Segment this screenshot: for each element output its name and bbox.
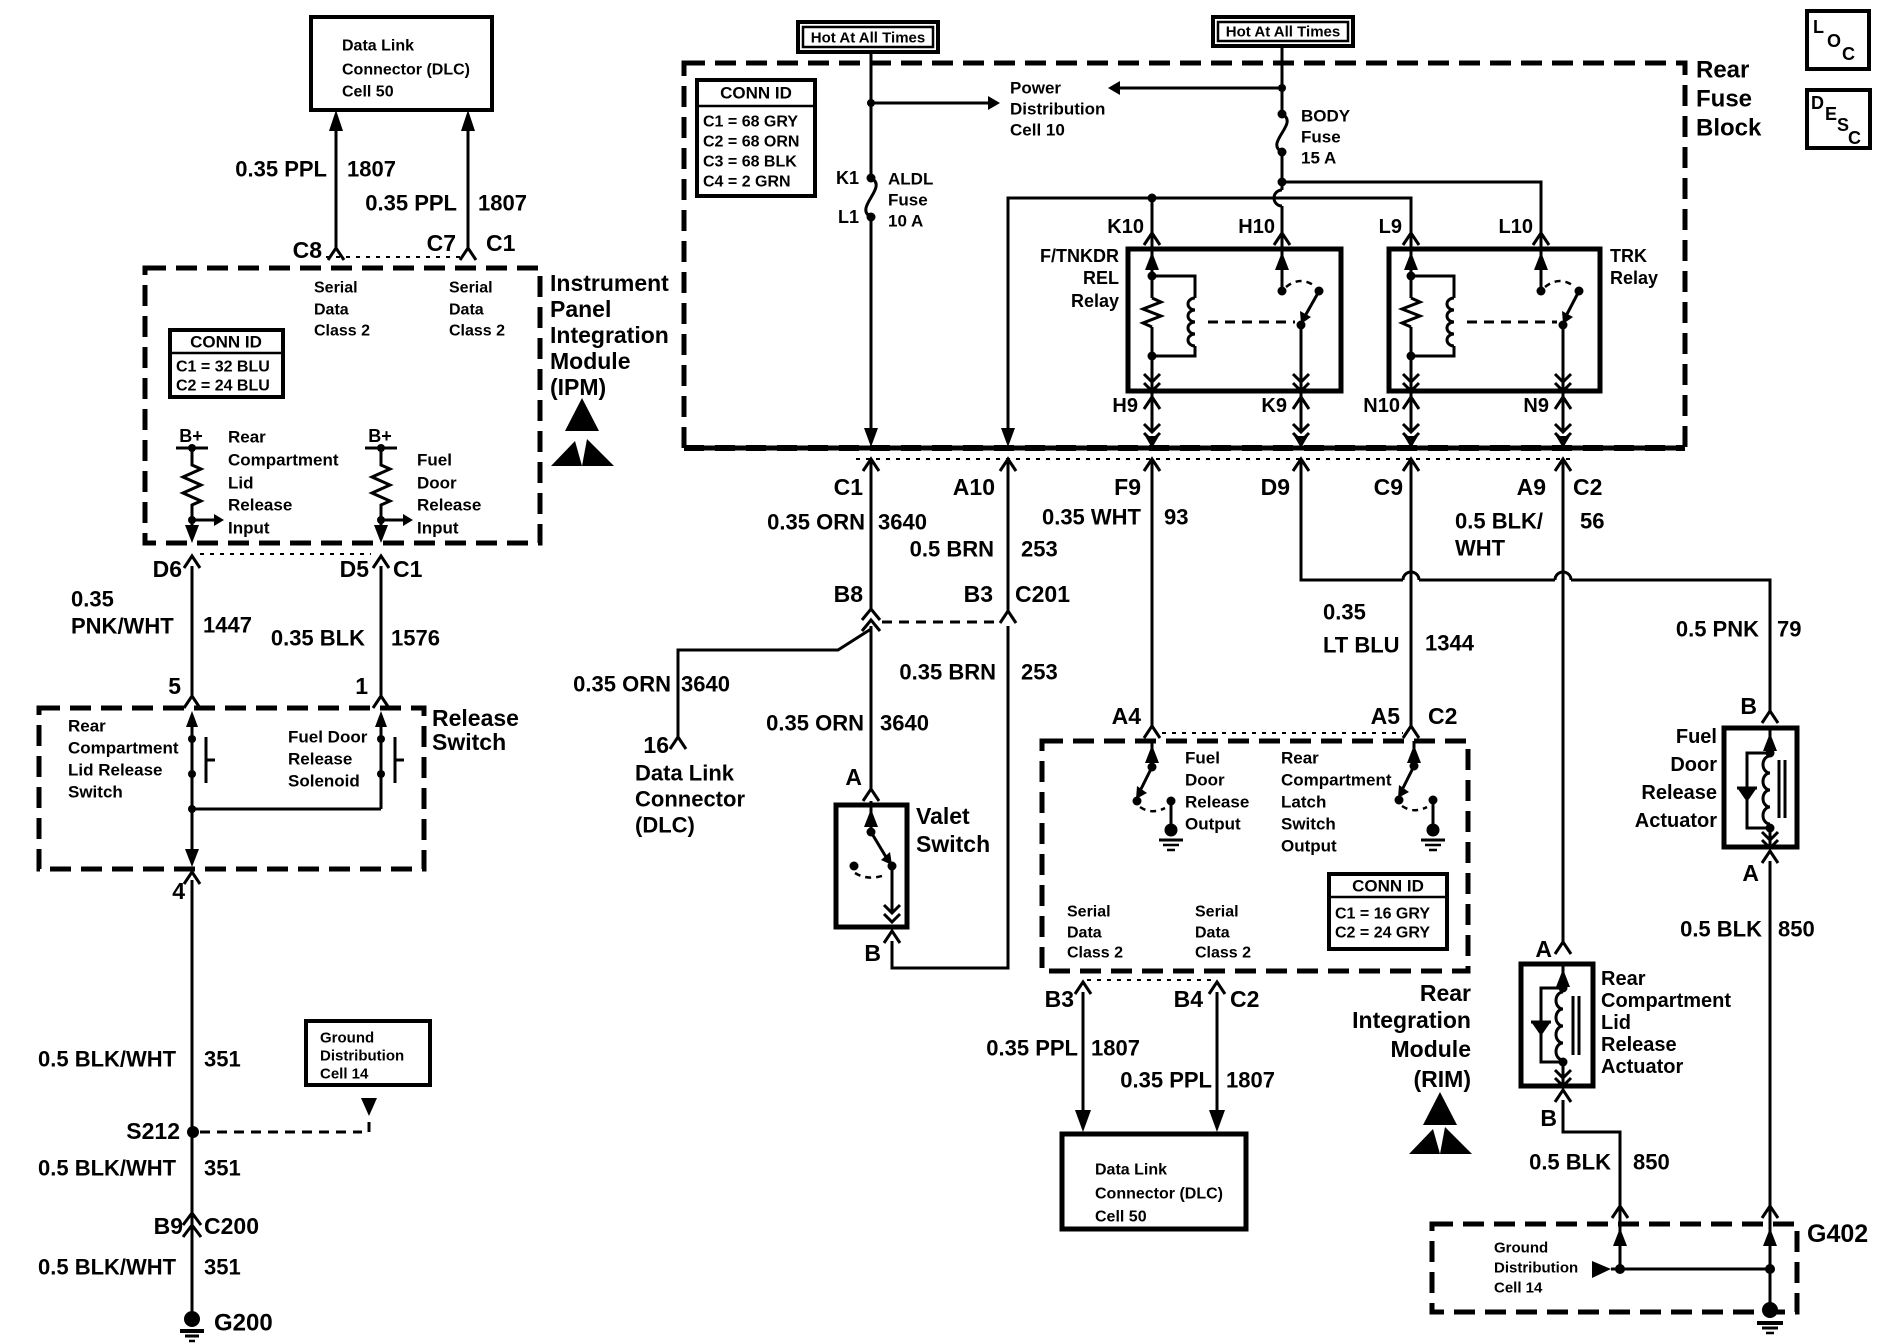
svg-text:Fuse: Fuse — [1696, 86, 1752, 113]
svg-text:B: B — [1740, 693, 1757, 719]
svg-text:0.35 ORN: 0.35 ORN — [766, 711, 864, 736]
svg-text:0.35 PPL: 0.35 PPL — [235, 157, 327, 182]
svg-text:Rear: Rear — [1601, 968, 1646, 990]
switch Fuel Door Release Solenoid contact — [375, 711, 404, 783]
svg-text:C200: C200 — [204, 1213, 259, 1239]
pin C7 / C1 connector — [427, 230, 516, 260]
svg-text:Data: Data — [1195, 925, 1230, 942]
label Rear Fuse Block — [1696, 57, 1762, 142]
svg-text:Hot At All Times: Hot At All Times — [1226, 24, 1340, 41]
svg-text:Release: Release — [1601, 1034, 1677, 1056]
svg-text:S212: S212 — [126, 1118, 180, 1144]
Rear Fuse Block dashed box — [684, 63, 1685, 448]
svg-text:PNK/WHT: PNK/WHT — [71, 614, 174, 639]
resistor Fuel Door Release Input pull-up — [372, 448, 390, 514]
pin L10 — [1499, 216, 1549, 245]
svg-text:Actuator: Actuator — [1601, 1056, 1683, 1078]
label Fuel Door Release Solenoid — [288, 728, 368, 791]
svg-text:0.35 ORN: 0.35 ORN — [767, 510, 865, 535]
value label 0.5 BLK/WHT 351 (2) — [38, 1156, 241, 1181]
svg-text:C3 = 68 BLK: C3 = 68 BLK — [703, 154, 797, 171]
svg-text:Connector (DLC): Connector (DLC) — [1095, 1186, 1223, 1203]
svg-text:16: 16 — [643, 732, 669, 758]
svg-text:Compartment: Compartment — [68, 739, 179, 758]
switch Fuel Door Release Output — [1133, 741, 1184, 850]
wire C8 serial data to DLC with arrow — [329, 110, 343, 248]
svg-text:L9: L9 — [1379, 216, 1402, 238]
pin C9 — [1374, 459, 1419, 500]
svg-text:K9: K9 — [1261, 395, 1287, 417]
svg-text:C8: C8 — [293, 237, 323, 263]
wire to Power Distribution (right arrow) — [871, 96, 1000, 110]
svg-text:C1: C1 — [393, 556, 423, 582]
svg-text:Class 2: Class 2 — [1195, 945, 1251, 962]
svg-text:850: 850 — [1778, 917, 1815, 942]
pin A (valet) — [845, 764, 879, 801]
pin B (fuel door actuator) — [1740, 693, 1778, 723]
svg-text:B8: B8 — [834, 581, 864, 607]
svg-text:G200: G200 — [214, 1310, 273, 1337]
svg-text:A: A — [1742, 860, 1759, 886]
svg-text:Fuel: Fuel — [417, 451, 452, 470]
svg-text:Fuse: Fuse — [1301, 128, 1341, 147]
svg-text:LT BLU: LT BLU — [1323, 633, 1400, 658]
svg-text:1576: 1576 — [391, 626, 440, 651]
pin A9 / C2 — [1517, 459, 1603, 500]
wire B8 branch to DLC pin 16 — [678, 629, 871, 739]
pin K9 — [1261, 391, 1309, 448]
svg-text:Data: Data — [314, 302, 349, 319]
svg-text:Cell 50: Cell 50 — [342, 84, 394, 101]
resistor Rear Compartment Lid Release Input pull-up — [183, 448, 201, 514]
svg-text:1447: 1447 — [203, 613, 252, 638]
svg-text:Class 2: Class 2 — [449, 323, 505, 340]
svg-text:1807: 1807 — [1226, 1068, 1275, 1093]
svg-text:1: 1 — [355, 673, 368, 699]
svg-text:Data: Data — [1067, 925, 1102, 942]
svg-text:B4: B4 — [1174, 986, 1204, 1012]
svg-text:REL: REL — [1083, 268, 1119, 288]
svg-text:Lid: Lid — [228, 474, 254, 493]
svg-text:Module: Module — [1391, 1036, 1472, 1062]
connector row dotted line under fuse block — [856, 458, 1574, 460]
actuator fuel door coil and diode — [1737, 728, 1785, 848]
CONN ID table (IPM) — [170, 330, 283, 397]
wire 0.35 LT BLU 1344 C9 to A5 — [1410, 462, 1413, 726]
svg-text:4: 4 — [172, 878, 185, 904]
svg-text:Instrument: Instrument — [550, 270, 669, 296]
svg-text:Release: Release — [432, 705, 519, 731]
svg-text:0.5 BLK: 0.5 BLK — [1680, 917, 1762, 942]
pin N10 — [1363, 391, 1419, 448]
svg-text:Connector: Connector — [635, 787, 745, 812]
wire 0.35 BRN 253 B3 to valet B — [892, 626, 1008, 968]
svg-text:C1 = 68 GRY: C1 = 68 GRY — [703, 114, 798, 131]
pin C8 — [293, 237, 344, 263]
svg-text:F9: F9 — [1114, 474, 1141, 500]
svg-text:0.35 BRN: 0.35 BRN — [899, 660, 996, 685]
svg-text:A5: A5 — [1371, 703, 1401, 729]
svg-text:Serial: Serial — [1067, 904, 1111, 921]
pin A4 — [1112, 703, 1160, 738]
relay TRK coil-switch dashed link — [1467, 321, 1557, 324]
svg-text:L: L — [1813, 17, 1824, 37]
pin 16 — [643, 732, 686, 758]
svg-text:0.35 PPL: 0.35 PPL — [986, 1036, 1078, 1061]
svg-text:0.35 PPL: 0.35 PPL — [1120, 1068, 1212, 1093]
switch valet internals — [850, 801, 901, 922]
svg-text:Lid Release: Lid Release — [68, 761, 163, 780]
svg-text:Compartment: Compartment — [1281, 771, 1392, 790]
svg-text:Door: Door — [1670, 754, 1717, 776]
Ground Distribution Cell 14 box (left) — [306, 1021, 430, 1085]
wire 0.5 PNK 79 D9 to fuel door actuator B (with hops) — [1301, 462, 1770, 713]
value label 0.5 BLK/WHT 351 (3) — [38, 1255, 241, 1280]
node B+ (left) — [176, 426, 208, 452]
svg-text:Distribution: Distribution — [1010, 100, 1105, 119]
label Release Switch — [432, 705, 519, 755]
node B+ (right) — [365, 426, 397, 452]
LOC reference box — [1807, 11, 1869, 69]
pin B3 (RIM) — [1045, 982, 1091, 1012]
label Serial Data Class 2 (RIM left) — [1067, 904, 1123, 962]
relay coil-switch dashed link — [1208, 321, 1295, 324]
svg-text:K1: K1 — [836, 168, 859, 188]
svg-text:Class 2: Class 2 — [1067, 945, 1123, 962]
wire 0.5 BLK/WHT 56 A9 down to rear actuator A — [1562, 462, 1565, 944]
svg-text:79: 79 — [1777, 617, 1801, 642]
label Rear Compartment Lid Release Switch — [68, 717, 179, 802]
pin B4 / C2 (RIM) — [1174, 982, 1260, 1012]
relay F/TNKDR switch — [1275, 236, 1324, 391]
value label 0.5 BRN 253 — [910, 537, 1058, 562]
ground G200 — [180, 1310, 273, 1342]
label Fuel Door Release Input — [417, 451, 481, 538]
svg-text:C2: C2 — [1573, 474, 1602, 500]
svg-text:C2 = 68 ORN: C2 = 68 ORN — [703, 134, 799, 151]
label Fuel Door Release Actuator — [1635, 726, 1717, 832]
svg-text:0.35 WHT: 0.35 WHT — [1042, 505, 1142, 530]
value label 0.5 BLK 850 (fuel) — [1680, 917, 1815, 942]
svg-text:B3: B3 — [964, 581, 993, 607]
svg-text:1344: 1344 — [1425, 631, 1475, 656]
svg-text:Data Link: Data Link — [1095, 1162, 1167, 1179]
label Rear Compartment Lid Release Actuator — [1601, 968, 1731, 1078]
switch Rear Compartment Lid Release Switch — [186, 711, 215, 783]
svg-text:Output: Output — [1185, 815, 1241, 834]
svg-text:K10: K10 — [1107, 216, 1144, 238]
pin 1 — [355, 673, 389, 708]
svg-text:Fuel: Fuel — [1185, 749, 1220, 768]
svg-text:Switch: Switch — [916, 831, 990, 857]
value label 0.35 LT BLU 1344 — [1323, 600, 1475, 658]
dashed link C201 — [882, 621, 998, 624]
svg-text:Input: Input — [228, 519, 270, 538]
label Power Distribution Cell 10 — [1010, 79, 1105, 140]
svg-text:5: 5 — [168, 673, 181, 699]
pin C1 (fuse block) — [834, 459, 879, 500]
svg-text:E: E — [1825, 104, 1837, 124]
ground G402 dashed box — [1432, 1224, 1797, 1312]
svg-text:0.35 ORN: 0.35 ORN — [573, 672, 671, 697]
label Valet Switch — [916, 803, 990, 857]
wire from BODY feed to Power Distribution (left arrow) — [1108, 81, 1282, 95]
connector B3 C201 — [964, 581, 1071, 623]
svg-text:0.35: 0.35 — [71, 587, 114, 612]
label TRK Relay — [1610, 246, 1658, 288]
svg-text:0.5 BLK/WHT: 0.5 BLK/WHT — [38, 1156, 177, 1181]
svg-text:Fuse: Fuse — [888, 191, 928, 210]
svg-text:15 A: 15 A — [1301, 149, 1336, 168]
svg-text:C2 = 24 BLU: C2 = 24 BLU — [176, 378, 270, 395]
svg-text:0.5 BLK/WHT: 0.5 BLK/WHT — [38, 1255, 177, 1280]
svg-text:Valet: Valet — [916, 803, 970, 829]
label Data Link Connector (DLC) — [635, 761, 745, 838]
svg-text:Lid: Lid — [1601, 1012, 1631, 1034]
svg-text:Release: Release — [228, 496, 292, 515]
label F/TNKDR REL Relay — [1040, 246, 1119, 311]
svg-text:Power: Power — [1010, 79, 1061, 98]
svg-text:Fuel: Fuel — [1676, 726, 1717, 748]
pin B (valet) — [864, 931, 900, 966]
relay F/TNKDR REL Relay box — [1128, 249, 1341, 391]
pin B (rear compartment actuator) — [1540, 1090, 1571, 1131]
svg-text:Rear: Rear — [1281, 749, 1319, 768]
wire coil feed line A10 to K10 and L9 — [1001, 194, 1411, 448]
svg-text:Rear: Rear — [68, 717, 106, 736]
label Serial Data Class 2 (RIM right) — [1195, 904, 1251, 962]
value label 0.35 PPL 1807 (left) — [235, 157, 396, 182]
svg-text:0.5 BLK: 0.5 BLK — [1529, 1150, 1611, 1175]
wire 0.35 BLK 1576 — [380, 566, 383, 698]
wire hot feed 2 — [1278, 46, 1286, 114]
DESC reference box — [1807, 90, 1870, 148]
label Serial Data Class 2 (left) — [314, 280, 370, 340]
label Serial Data Class 2 (right) — [449, 280, 505, 340]
value label 0.35 ORN 3640 (upper) — [767, 510, 927, 535]
arrow to ground distribution — [361, 1098, 377, 1132]
svg-text:3640: 3640 — [681, 672, 730, 697]
svg-text:Integration: Integration — [550, 322, 669, 348]
relay TRK switch — [1534, 236, 1584, 391]
svg-text:Compartment: Compartment — [228, 451, 339, 470]
relay TRK Relay box — [1389, 249, 1600, 391]
Hot At All Times box (left) — [798, 22, 938, 52]
label Instrument Panel Integration Module (IPM) — [550, 270, 669, 400]
svg-text:D: D — [1811, 93, 1824, 113]
label Rear Compartment Lid Release Input — [228, 428, 339, 538]
actuator Rear Compartment Lid Release Actuator box — [1521, 964, 1593, 1086]
svg-text:Door: Door — [417, 474, 457, 493]
svg-text:253: 253 — [1021, 660, 1058, 685]
wire 0.5 BLK 850 fuel actuator to G402 — [1769, 861, 1772, 1305]
svg-text:B: B — [1540, 1105, 1557, 1131]
svg-text:Serial: Serial — [449, 280, 493, 297]
arrow ground distribution feed — [1592, 1261, 1611, 1278]
svg-text:56: 56 — [1580, 509, 1604, 534]
svg-text:N10: N10 — [1363, 395, 1400, 417]
svg-text:B+: B+ — [368, 426, 392, 446]
value label 0.35 PPL 1807 (B3) — [986, 1036, 1140, 1061]
svg-text:Input: Input — [417, 519, 459, 538]
Data Link Connector (DLC) Cell 50 box (top) — [311, 17, 492, 110]
svg-text:1807: 1807 — [1091, 1036, 1140, 1061]
svg-text:0.5 BRN: 0.5 BRN — [910, 537, 994, 562]
svg-text:CONN ID: CONN ID — [720, 84, 792, 103]
connector B8 — [834, 581, 880, 631]
svg-text:N9: N9 — [1523, 395, 1549, 417]
svg-text:Output: Output — [1281, 837, 1337, 856]
svg-text:Integration: Integration — [1352, 1007, 1471, 1033]
svg-text:C2: C2 — [1230, 986, 1259, 1012]
svg-text:Data Link: Data Link — [342, 38, 414, 55]
svg-text:O: O — [1827, 31, 1841, 51]
svg-text:Cell 10: Cell 10 — [1010, 121, 1065, 140]
svg-text:Switch: Switch — [1281, 815, 1336, 834]
actuator Fuel Door Release Actuator box — [1724, 728, 1797, 847]
svg-text:Relay: Relay — [1071, 291, 1119, 311]
value label 0.35 WHT 93 — [1042, 505, 1189, 530]
svg-text:A10: A10 — [953, 474, 995, 500]
svg-text:WHT: WHT — [1455, 536, 1506, 561]
svg-text:3640: 3640 — [880, 711, 929, 736]
svg-text:D9: D9 — [1261, 474, 1290, 500]
svg-text:A: A — [1535, 936, 1552, 962]
svg-text:0.5 PNK: 0.5 PNK — [1676, 617, 1759, 642]
label Rear Compartment Latch Switch Output — [1281, 749, 1392, 856]
relay F/TNKDR coil branch — [1143, 236, 1195, 391]
connector row dotted line at RIM top — [1162, 732, 1403, 734]
wire 0.35 WHT 93 F9 to A4 — [1151, 462, 1154, 726]
svg-text:351: 351 — [204, 1156, 241, 1181]
value label 0.35 ORN 3640 (to DLC) — [573, 672, 730, 697]
svg-text:Release: Release — [417, 496, 481, 515]
svg-text:253: 253 — [1021, 537, 1058, 562]
svg-text:Door: Door — [1185, 771, 1225, 790]
svg-text:Cell 50: Cell 50 — [1095, 1209, 1147, 1226]
svg-text:10 A: 10 A — [888, 212, 923, 231]
svg-text:ALDL: ALDL — [888, 170, 933, 189]
svg-text:C1: C1 — [486, 230, 516, 256]
CONN ID table (Rear Fuse Block) — [697, 80, 815, 196]
svg-text:Cell 14: Cell 14 — [1494, 1280, 1543, 1297]
pin N9 — [1523, 391, 1571, 448]
wire 0.35 ORN 3640 B8 to valet switch A — [870, 626, 873, 791]
pin F9 — [1114, 459, 1160, 500]
svg-text:TRK: TRK — [1610, 246, 1647, 266]
svg-text:Rear: Rear — [228, 428, 266, 447]
svg-text:C: C — [1842, 44, 1855, 64]
svg-text:Distribution: Distribution — [1494, 1260, 1578, 1277]
pin H9 — [1112, 391, 1160, 448]
wire 0.5 BRN 253 A10 to B3 — [1007, 462, 1010, 611]
svg-text:B9: B9 — [154, 1213, 183, 1239]
svg-text:Release: Release — [288, 750, 352, 769]
ESD symbol (IPM) — [551, 398, 614, 466]
pin 5 — [168, 673, 200, 708]
heavy bottom edge of fuse block — [684, 445, 1685, 451]
svg-text:0.35 PPL: 0.35 PPL — [365, 191, 457, 216]
node S212 splice — [126, 1118, 362, 1144]
wire 0.5 BLK 850 rear actuator to G402 — [1563, 1100, 1620, 1269]
svg-text:Serial: Serial — [1195, 904, 1239, 921]
svg-text:H9: H9 — [1112, 395, 1138, 417]
Instrument Panel Integration Module (IPM) dashed box — [145, 268, 540, 543]
wire 0.35 PPL 1807 B3 to DLC — [1075, 992, 1091, 1132]
pin L9 — [1379, 216, 1419, 245]
wire 0.35 PPL 1807 B4 to DLC — [1209, 992, 1225, 1132]
pin 4 connector — [172, 872, 200, 904]
svg-text:(IPM): (IPM) — [550, 374, 606, 400]
svg-text:Data: Data — [449, 302, 484, 319]
svg-text:D5: D5 — [340, 556, 370, 582]
CONN ID table (RIM) — [1329, 874, 1447, 949]
actuator rear compartment coil and diode — [1531, 964, 1579, 1086]
pin D5 / C1 connector — [340, 556, 423, 582]
svg-text:Latch: Latch — [1281, 793, 1326, 812]
wire hot feed to ALDL fuse — [867, 52, 875, 178]
svg-text:C: C — [1848, 128, 1861, 148]
wire BODY fuse to L10 — [1282, 182, 1541, 236]
value label 0.35 PNK/WHT 1447 — [71, 587, 252, 639]
wire 0.35 ORN 3640 C1 to B8 — [870, 462, 873, 609]
pin into G402 (rear actuator ground) — [1612, 1206, 1628, 1246]
svg-text:BODY: BODY — [1301, 107, 1351, 126]
value label 0.35 BLK 1576 — [271, 626, 440, 651]
value label 0.35 PPL 1807 (right) — [365, 191, 527, 216]
svg-text:Data Link: Data Link — [635, 761, 735, 786]
svg-text:C1 = 16 GRY: C1 = 16 GRY — [1335, 906, 1430, 923]
value label 0.5 BLK/WHT 351 (1) — [38, 1047, 241, 1072]
svg-text:Release: Release — [1185, 793, 1249, 812]
pin A10 — [953, 459, 1016, 500]
ESD symbol (RIM) — [1409, 1092, 1472, 1154]
svg-text:Switch: Switch — [432, 729, 506, 755]
svg-text:0.5 BLK/: 0.5 BLK/ — [1455, 509, 1543, 534]
svg-text:A: A — [845, 764, 862, 790]
value label 0.5 BLK/WHT 56 — [1455, 509, 1604, 561]
pin A (rear compartment actuator) — [1535, 936, 1571, 962]
svg-text:Relay: Relay — [1610, 268, 1658, 288]
svg-text:Switch: Switch — [68, 783, 123, 802]
wire C7/C1 serial data to DLC with arrow — [461, 110, 475, 248]
pin K10 — [1107, 216, 1160, 245]
svg-text:Rear: Rear — [1696, 57, 1749, 84]
Hot At All Times box (right) — [1213, 17, 1353, 46]
svg-text:0.35: 0.35 — [1323, 600, 1366, 625]
svg-text:93: 93 — [1164, 505, 1188, 530]
svg-text:351: 351 — [204, 1255, 241, 1280]
Release Switch dashed box — [39, 708, 424, 869]
value label 0.35 ORN 3640 (valet) — [766, 711, 929, 736]
svg-text:Release: Release — [1641, 782, 1717, 804]
svg-text:850: 850 — [1633, 1150, 1670, 1175]
wire 0.5 BLK/WHT 351 ground run — [191, 880, 194, 1311]
svg-text:0.35 BLK: 0.35 BLK — [271, 626, 365, 651]
value label 0.5 BLK 850 (rear) — [1529, 1150, 1670, 1175]
connector row dotted line under IPM — [200, 553, 371, 555]
svg-text:0.5 BLK/WHT: 0.5 BLK/WHT — [38, 1047, 177, 1072]
value label 0.35 BRN 253 — [899, 660, 1057, 685]
wire ground bus G402 — [1611, 1264, 1775, 1274]
svg-text:L1: L1 — [838, 207, 859, 227]
pin D9 — [1261, 459, 1309, 500]
wire BODY fuse to H10 with hop over coil feed — [1274, 152, 1287, 236]
svg-text:C2: C2 — [1428, 703, 1457, 729]
svg-text:C1: C1 — [834, 474, 864, 500]
svg-text:C9: C9 — [1374, 474, 1403, 500]
wire ALDL fuse down to C1 with arrow — [864, 217, 878, 447]
